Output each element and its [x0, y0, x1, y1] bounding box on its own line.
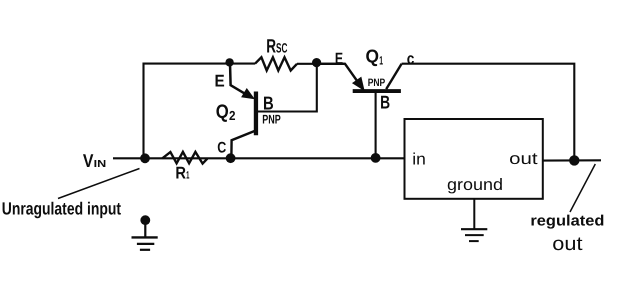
svg-text:Q: Q [366, 46, 380, 67]
wire top rail left segment [144, 64, 256, 159]
svg-text:C: C [217, 140, 226, 157]
transistor Q2 [230, 63, 317, 156]
svg-text:out: out [552, 234, 583, 255]
wire Vin bottom rail [113, 157, 405, 159]
svg-text:in: in [412, 150, 426, 168]
wire Q1 collector to output rail [402, 64, 575, 161]
node output junction [569, 155, 579, 165]
svg-text:1: 1 [186, 170, 189, 182]
svg-text:c: c [407, 50, 415, 68]
svg-text:IN: IN [94, 159, 107, 170]
svg-text:R: R [266, 37, 276, 58]
svg-text:R: R [175, 164, 186, 183]
resistor RSC [255, 57, 297, 70]
label VIN [83, 150, 106, 171]
resistor R1 [162, 152, 207, 164]
svg-text:V: V [83, 150, 94, 171]
ground (regulator) [461, 199, 487, 241]
node Q2 emitter junction [225, 58, 233, 66]
svg-text:regulated: regulated [530, 212, 604, 229]
svg-text:Q: Q [216, 101, 229, 123]
svg-text:B: B [263, 93, 274, 114]
svg-text:2: 2 [229, 108, 236, 123]
regulator box U1 [405, 119, 543, 199]
svg-text:PNP: PNP [262, 113, 281, 127]
svg-text:B: B [380, 91, 390, 112]
svg-text:ground: ground [447, 176, 503, 194]
node Q1 base junction [371, 153, 381, 163]
node Vin junction [140, 153, 150, 163]
leader line unregulated input [58, 169, 140, 199]
wire regulator out [543, 159, 601, 161]
node Q2 collector junction [226, 153, 236, 163]
svg-text:E: E [215, 72, 225, 91]
wire top rail from RSC to Q1 [297, 63, 345, 65]
svg-text:Unragulated input: Unragulated input [2, 198, 121, 218]
svg-text:SC: SC [276, 41, 288, 56]
svg-text:E: E [335, 50, 343, 68]
node RSC-Q1 emitter junction [312, 58, 321, 67]
transistor Q1 [316, 64, 402, 158]
leader line regulated out [570, 164, 595, 212]
ground (input) [132, 215, 158, 250]
label Q1 [366, 46, 384, 68]
svg-text:PNP: PNP [368, 77, 386, 89]
svg-text:1: 1 [379, 54, 383, 68]
label R1 [175, 164, 189, 183]
svg-text:out: out [509, 150, 538, 168]
label RSC [266, 37, 287, 58]
label Q2 [216, 101, 236, 123]
